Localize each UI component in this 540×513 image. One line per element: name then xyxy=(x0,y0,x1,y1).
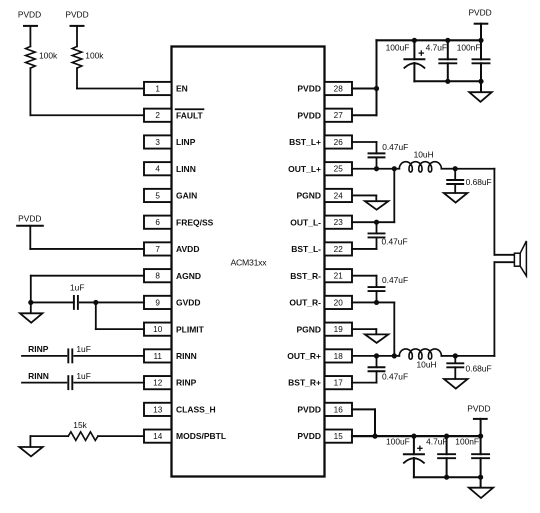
wire pin 22 BST_L- xyxy=(352,248,377,250)
wire PVDD terminal to rail xyxy=(480,419,482,436)
capacitor C5 0.68uF xyxy=(454,169,456,179)
wire L2 to C11 junction xyxy=(441,355,455,357)
ground (MODS/PBTL) xyxy=(19,447,42,456)
svg-text:OUT_L+: OUT_L+ xyxy=(288,164,321,174)
node bottom rail junction C2 xyxy=(445,79,450,84)
wire junction to C8 xyxy=(31,301,74,303)
svg-text:PGND: PGND xyxy=(296,191,321,201)
wire speaker positive riser xyxy=(493,169,495,255)
wire pin 18 OUT_R+ xyxy=(352,355,399,357)
node rail junction C14 xyxy=(444,434,449,439)
svg-text:16: 16 xyxy=(334,405,344,414)
svg-text:12: 12 xyxy=(153,379,163,388)
svg-text:RINP: RINP xyxy=(28,344,49,354)
svg-text:FAULT: FAULT xyxy=(176,110,204,120)
node L1 output junction xyxy=(453,166,458,171)
svg-text:RINN: RINN xyxy=(176,351,197,361)
ground (C5) xyxy=(444,193,468,203)
node rail junction C2 xyxy=(445,38,450,43)
node AGND junction xyxy=(28,300,33,305)
wire C9 to pin 11 RINN xyxy=(74,355,144,357)
pin 13 box (CLASS_H) xyxy=(144,403,172,416)
pin 4 box (LINN) xyxy=(144,162,172,175)
pin 18 box (OUT_R+) xyxy=(325,349,353,362)
node rail junction C1 xyxy=(412,38,417,43)
capacitor C7 0.47uF (BST_R-) xyxy=(376,276,378,287)
svg-text:PVDD: PVDD xyxy=(18,213,41,223)
svg-text:100k: 100k xyxy=(85,50,104,60)
wire junction to speaker down-riser xyxy=(455,355,494,357)
svg-text:15k: 15k xyxy=(73,420,87,430)
node L2 output junction xyxy=(453,353,458,358)
wire to ground xyxy=(480,81,482,92)
node rail junction C15 xyxy=(478,434,483,439)
wire PVDD to pin 7 AVDD xyxy=(29,226,31,249)
ground (pin 19 PGND) xyxy=(365,334,388,343)
svg-text:0.47uF: 0.47uF xyxy=(382,236,408,246)
wire speaker negative riser xyxy=(494,261,514,263)
node bottom rail junction C15 xyxy=(478,475,483,480)
svg-text:PVDD: PVDD xyxy=(297,84,321,94)
svg-text:100nF: 100nF xyxy=(457,42,481,52)
wire pin 25 OUT_L+ xyxy=(352,168,399,170)
pin 17 box (BST_R+) xyxy=(325,376,353,389)
pin 8 box (AGND) xyxy=(144,269,172,282)
svg-text:FREQ/SS: FREQ/SS xyxy=(176,217,214,227)
svg-text:PVDD: PVDD xyxy=(297,431,321,441)
svg-text:RINP: RINP xyxy=(176,378,197,388)
wire PVDD bar to R2 xyxy=(29,26,31,47)
svg-text:PVDD: PVDD xyxy=(297,404,321,414)
wire PVDD riser xyxy=(376,40,378,115)
wire junction to pin 10 PLIMIT xyxy=(95,302,97,329)
svg-text:PLIMIT: PLIMIT xyxy=(176,324,205,334)
wire C8 to pin 9 GVDD xyxy=(80,301,144,303)
svg-text:18: 18 xyxy=(334,352,344,361)
svg-text:5: 5 xyxy=(155,191,160,200)
capacitor C3 100nF xyxy=(480,40,482,59)
svg-text:OUT_R+: OUT_R+ xyxy=(287,351,321,361)
svg-text:100uF: 100uF xyxy=(386,42,410,52)
wire bottom rail of decoupling xyxy=(414,80,481,82)
ground (AGND) xyxy=(30,302,32,313)
svg-text:15: 15 xyxy=(334,432,344,441)
inductor L1 10uH xyxy=(399,162,441,172)
svg-text:PVDD: PVDD xyxy=(467,403,490,413)
ground (top decoupling) xyxy=(469,92,492,102)
svg-text:2: 2 xyxy=(155,111,160,120)
pin 2 box (FAULT) xyxy=(144,109,172,122)
svg-text:23: 23 xyxy=(334,218,344,227)
node pin16 junction xyxy=(372,434,377,439)
svg-text:BST_L-: BST_L- xyxy=(291,244,321,254)
svg-text:1uF: 1uF xyxy=(76,344,90,354)
pin 5 box (GAIN) xyxy=(144,189,172,202)
pin 9 box (GVDD) xyxy=(144,296,172,309)
svg-text:4: 4 xyxy=(155,165,160,174)
wire top PVDD rail xyxy=(377,39,482,41)
svg-text:10: 10 xyxy=(153,325,163,334)
svg-text:10uH: 10uH xyxy=(417,360,437,370)
wire R2 to pin 2 xyxy=(29,68,31,115)
capacitor C9 1uF (RINN input) xyxy=(67,349,69,362)
pin 7 box (AVDD) xyxy=(144,242,172,255)
node BST_R+ cap junction xyxy=(374,353,379,358)
svg-text:0.47uF: 0.47uF xyxy=(382,371,408,381)
svg-text:BST_R+: BST_R+ xyxy=(288,378,321,388)
capacitor C13 100uF (polarized) xyxy=(413,436,415,454)
svg-text:3: 3 xyxy=(155,138,160,147)
node pin28 junction xyxy=(374,86,379,91)
wire pin 26 BST_L+ xyxy=(352,141,377,143)
svg-text:9: 9 xyxy=(155,298,160,307)
resistor R1 100k (to pin 1 EN) xyxy=(72,46,82,68)
wire pin 15 PVDD rail xyxy=(352,435,481,437)
capacitor C14 4.7uF xyxy=(446,436,448,454)
pin 3 box (LINP) xyxy=(144,135,172,148)
pin 6 box (FREQ/SS) xyxy=(144,216,172,229)
svg-text:21: 21 xyxy=(334,272,344,281)
svg-text:4.7uF: 4.7uF xyxy=(426,42,447,52)
svg-text:PVDD: PVDD xyxy=(65,10,88,20)
pin 23 box (OUT_L-) xyxy=(325,216,353,229)
node bottom rail junction C14 xyxy=(444,475,449,480)
wire R3 to ground xyxy=(30,435,68,437)
FAULT overline xyxy=(176,108,204,110)
pin 22 box (BST_L-) xyxy=(325,242,353,255)
svg-text:AGND: AGND xyxy=(176,271,201,281)
wire R1 to pin 1 xyxy=(76,68,78,88)
pin 11 box (RINN) xyxy=(144,349,172,362)
pin 24 box (PGND) xyxy=(325,189,353,202)
wire L1 to C5 junction xyxy=(441,168,455,170)
resistor R2 100k (to pin 2 FAULT) xyxy=(26,46,36,68)
wire pin 23 OUT_L- xyxy=(352,221,394,223)
pin 21 box (BST_R-) xyxy=(325,269,353,282)
svg-text:26: 26 xyxy=(334,138,344,147)
capacitor C8 1uF (GVDD) xyxy=(73,296,75,309)
node GVDD/PLIMIT junction xyxy=(93,300,98,305)
svg-text:EN: EN xyxy=(176,84,188,94)
svg-text:BST_L+: BST_L+ xyxy=(289,137,321,147)
wire pin 17 BST_R+ xyxy=(352,382,377,384)
svg-text:20: 20 xyxy=(334,298,344,307)
svg-text:PGND: PGND xyxy=(296,324,321,334)
node BST_L- cap junction xyxy=(374,220,379,225)
node bottom rail junction C3 xyxy=(478,79,483,84)
svg-text:1uF: 1uF xyxy=(70,283,84,293)
svg-text:0.47uF: 0.47uF xyxy=(382,142,408,152)
svg-text:27: 27 xyxy=(334,111,344,120)
node rail junction C13 xyxy=(411,434,416,439)
svg-text:MODS/PBTL: MODS/PBTL xyxy=(176,431,226,441)
wire pin 20 OUT_R- xyxy=(352,301,394,303)
wire PVDD terminal to rail xyxy=(480,24,482,41)
wire pin 21 BST_R- xyxy=(352,275,377,277)
pin 12 box (RINP) xyxy=(144,376,172,389)
svg-text:PVDD: PVDD xyxy=(297,110,321,120)
node OUT_R tie junction xyxy=(392,353,397,358)
wire junction to speaker riser xyxy=(455,168,494,170)
svg-text:PVDD: PVDD xyxy=(18,10,41,20)
inductor L2 10uH xyxy=(399,349,441,359)
wire pin 28 PVDD xyxy=(352,88,377,90)
capacitor C2 4.7uF xyxy=(447,40,449,59)
capacitor C6 0.47uF (BST_L-) xyxy=(376,222,378,233)
svg-text:22: 22 xyxy=(334,245,344,254)
svg-text:GAIN: GAIN xyxy=(176,191,197,201)
svg-text:LINN: LINN xyxy=(176,164,196,174)
svg-text:ACM31xx: ACM31xx xyxy=(230,258,267,268)
svg-text:100nF: 100nF xyxy=(455,436,479,446)
wire pin 16 PVDD xyxy=(352,408,375,410)
svg-text:LINP: LINP xyxy=(176,137,196,147)
polarity + mark C1 xyxy=(419,52,423,54)
svg-text:PVDD: PVDD xyxy=(468,7,491,17)
pin 26 box (BST_L+) xyxy=(325,135,353,148)
wire R3 to pin 14 xyxy=(98,435,144,437)
capacitor C12 0.47uF (BST_R+) xyxy=(376,356,378,367)
svg-text:RINN: RINN xyxy=(28,371,49,381)
pin 14 box (MODS/PBTL) xyxy=(144,430,172,443)
svg-text:13: 13 xyxy=(153,405,163,414)
wire pin 24 PGND xyxy=(352,194,376,196)
wire C10 to pin 12 RINP xyxy=(74,382,144,384)
svg-text:CLASS_H: CLASS_H xyxy=(176,404,216,414)
svg-text:19: 19 xyxy=(334,325,344,334)
svg-text:0.68uF: 0.68uF xyxy=(466,363,492,373)
pin 10 box (PLIMIT) xyxy=(144,323,172,336)
svg-text:11: 11 xyxy=(153,352,162,361)
svg-text:0.68uF: 0.68uF xyxy=(466,177,492,187)
svg-text:1: 1 xyxy=(155,85,160,94)
svg-text:1uF: 1uF xyxy=(76,371,90,381)
svg-text:7: 7 xyxy=(155,245,160,254)
node rail junction C3 xyxy=(478,38,483,43)
pin 16 box (PVDD) xyxy=(325,403,353,416)
svg-text:25: 25 xyxy=(334,165,344,174)
svg-text:100uF: 100uF xyxy=(386,436,410,446)
wire to ground xyxy=(480,477,482,487)
capacitor C11 0.68uF xyxy=(454,356,456,362)
op IC U1 ACM31xx body xyxy=(172,47,325,477)
wire pin 8 AGND to ground junction xyxy=(31,275,144,277)
speaker LS1 xyxy=(514,253,520,266)
svg-text:10uH: 10uH xyxy=(414,150,434,160)
capacitor C4 0.47uF (BST_L+) xyxy=(376,142,378,153)
svg-text:100k: 100k xyxy=(39,50,58,60)
svg-text:17: 17 xyxy=(334,379,344,388)
capacitor C15 100nF xyxy=(480,436,482,454)
svg-text:4.7uF: 4.7uF xyxy=(426,436,447,446)
node OUT_L tie junction xyxy=(392,166,397,171)
svg-text:OUT_R-: OUT_R- xyxy=(289,298,321,308)
svg-text:8: 8 xyxy=(155,272,160,281)
node BST_L+ cap junction xyxy=(374,166,379,171)
pin 20 box (OUT_R-) xyxy=(325,296,353,309)
pin 15 box (PVDD) xyxy=(325,430,353,443)
wire RINN input xyxy=(22,382,66,384)
svg-text:14: 14 xyxy=(153,432,163,441)
pin 28 box (PVDD) xyxy=(325,82,353,95)
svg-text:OUT_L-: OUT_L- xyxy=(290,217,321,227)
wire bottom rail of decoupling xyxy=(414,476,481,478)
node BST_R- cap junction xyxy=(374,300,379,305)
wire OUT_R- / OUT_R+ tie xyxy=(393,302,395,355)
wire pin 19 PGND xyxy=(352,328,376,330)
svg-text:28: 28 xyxy=(334,85,344,94)
svg-text:6: 6 xyxy=(155,218,160,227)
ground (pin 24 PGND) xyxy=(365,201,388,210)
svg-text:GVDD: GVDD xyxy=(176,298,201,308)
svg-text:AVDD: AVDD xyxy=(176,244,199,254)
svg-text:BST_R-: BST_R- xyxy=(290,271,321,281)
svg-text:0.47uF: 0.47uF xyxy=(382,275,408,285)
wire OUT_L+ / OUT_L- tie xyxy=(393,169,395,222)
polarity + mark C13 xyxy=(418,447,422,449)
capacitor C10 1uF (RINP input) xyxy=(67,376,69,389)
resistor R3 15k (MODS/PBTL) xyxy=(68,432,98,441)
svg-text:24: 24 xyxy=(334,191,344,200)
pin 19 box (PGND) xyxy=(325,323,353,336)
ground (C11) xyxy=(444,379,468,389)
pin 25 box (OUT_L+) xyxy=(325,162,353,175)
wire pin 27 PVDD xyxy=(352,114,377,116)
wire RINP input xyxy=(22,355,66,357)
pin 1 box (EN) xyxy=(144,82,172,95)
wire PVDD bar to R1 xyxy=(76,26,78,47)
pin 27 box (PVDD) xyxy=(325,109,353,122)
capacitor C1 100uF (polarized) xyxy=(413,40,415,59)
ground (bottom decoupling) xyxy=(469,488,493,498)
